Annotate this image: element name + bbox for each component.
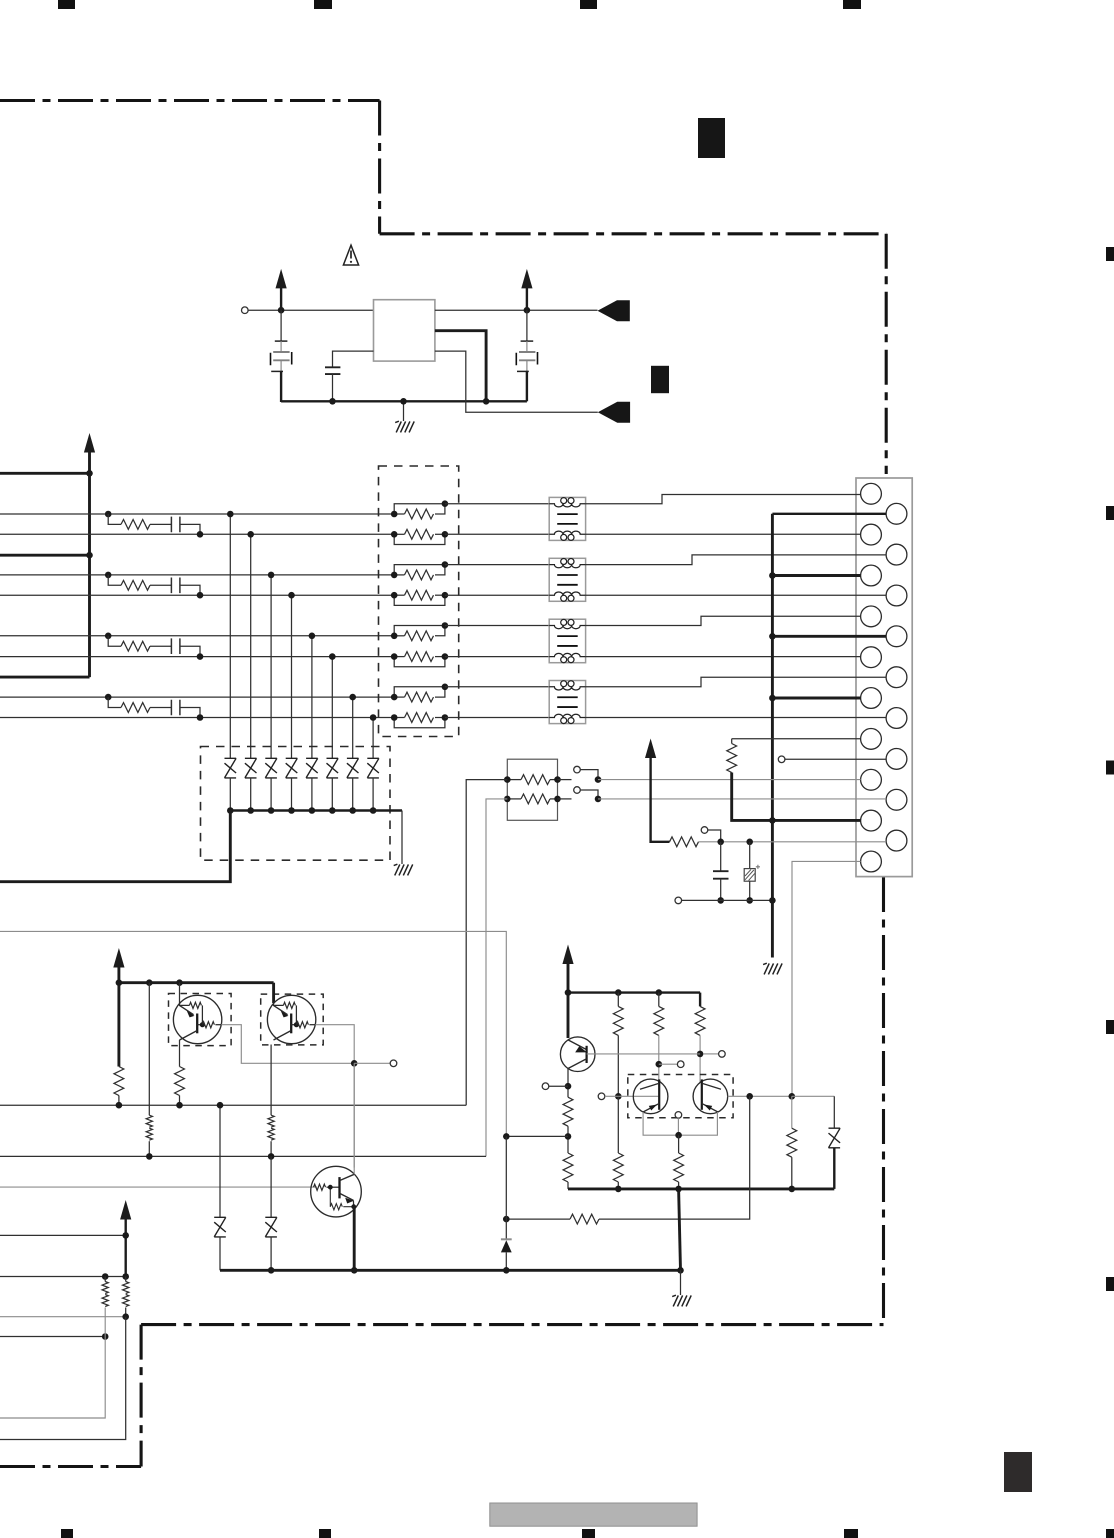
node D10 rail	[268, 1267, 275, 1274]
wire RA2 left to lower section	[486, 799, 507, 1157]
wire A5 stem	[124, 1219, 126, 1277]
wire D9 to bottom rail	[219, 1237, 221, 1270]
wire long line y=931.4	[0, 931, 506, 1136]
capacitor C2	[325, 367, 340, 374]
node bottom rail G4	[677, 1267, 684, 1274]
resistor network R7	[394, 687, 445, 697]
node Q5 base	[615, 1093, 622, 1100]
resistor R27	[123, 1282, 129, 1294]
wire R7 output to transformer	[445, 686, 549, 688]
node R1 right	[442, 500, 449, 507]
connector pin R6	[886, 708, 907, 729]
transformer T1	[549, 497, 585, 540]
node C5 top	[746, 839, 753, 846]
connector pin R4	[886, 626, 907, 647]
resistor Rb2	[658, 993, 660, 1007]
wire R23 to line 1156.4	[148, 1141, 150, 1156]
wire R25 to line 1156.4	[270, 1141, 272, 1156]
node R7 left	[391, 694, 398, 701]
diode D12	[501, 1238, 512, 1240]
wire Q6 emitter	[679, 1112, 718, 1135]
wire input node to diode D11	[792, 1095, 835, 1097]
resistor RA1	[507, 779, 521, 781]
diode D10	[270, 1156, 272, 1217]
wire T3 top to pin L4	[586, 616, 861, 625]
shield bus vertical (bold)	[771, 514, 774, 958]
connector pin R5	[886, 667, 907, 688]
node diode D1 rail	[227, 807, 234, 814]
dash-dot border right vertical lower segment	[882, 877, 885, 1322]
thick bus line 1 from left edge	[0, 472, 90, 475]
power arrow A1	[276, 269, 287, 289]
bottom ground rail (bold)	[220, 1269, 681, 1272]
power arrow A3	[84, 433, 95, 453]
node Q3 emitter rail	[351, 1267, 358, 1274]
wire Rd to node 1136.4	[567, 1126, 569, 1153]
wire pin R1 to shield bus	[772, 513, 886, 515]
wire D10 to bottom rail	[270, 1237, 272, 1270]
wire C2 to ground rail	[332, 374, 334, 401]
terminal T-E56	[675, 1112, 682, 1119]
wire tap to terminal	[659, 1063, 678, 1065]
resistor RC snubber 3	[108, 636, 121, 646]
dashed box diode bank	[201, 747, 391, 861]
signal wire line 6 from left edge	[0, 656, 394, 658]
node rail Rb2	[656, 989, 663, 996]
node R20/C4	[717, 839, 724, 846]
resistor R25	[268, 1115, 274, 1127]
wire R2 output to transformer	[445, 533, 549, 535]
crop mark bottom 3	[582, 1529, 595, 1538]
connector pin L5	[861, 647, 882, 668]
power arrow A6	[562, 945, 573, 965]
signal wire line 1 from left edge	[0, 513, 394, 515]
node RC snubber 3 lower tap	[197, 653, 204, 660]
wire T1 bottom to pin L2	[586, 533, 861, 535]
node Rf rail	[675, 1186, 682, 1193]
node D12 rail	[503, 1267, 510, 1274]
node RC snubber 4 upper tap	[105, 694, 112, 701]
node R2 right	[442, 531, 449, 538]
connector pin L6	[861, 688, 882, 709]
transistor Q1 (digital, PNP)	[173, 995, 221, 1043]
wire vertical drop 2 to diode bank	[250, 534, 252, 758]
wire diode D1 to rail	[229, 778, 231, 811]
wire Q5 emitter	[643, 1112, 679, 1135]
resistor network R5	[394, 626, 445, 636]
wire vertical drop 7 to diode bank	[352, 697, 354, 758]
resistor R23	[148, 983, 150, 1115]
resistor network R2	[394, 534, 445, 544]
node drop 7 on line 7	[349, 694, 356, 701]
wire left line y=1276.5	[0, 1276, 126, 1278]
wire to terminal T-QB	[354, 1062, 390, 1064]
node drop 6 on line 6	[329, 653, 336, 660]
node S1 output	[595, 776, 602, 783]
capacitor C5 (electrolytic boxed)	[749, 842, 751, 869]
terminal T-QB	[390, 1060, 397, 1067]
dash-dot border upper horizontal y=233.8	[380, 232, 887, 235]
wire T3 bottom to pin L5	[586, 656, 861, 658]
registration square right edge 1	[1106, 247, 1114, 261]
wire R24 to line 1105.2	[179, 1096, 181, 1106]
wire to ground G4	[680, 1270, 682, 1295]
thin line left y=1156.4	[0, 1155, 486, 1157]
connector pin R3	[886, 585, 907, 606]
node line1136 left	[503, 1133, 510, 1140]
wire Q2 collector down	[270, 1045, 272, 1116]
power arrow A4	[113, 948, 124, 968]
wire diode D3 to rail	[270, 778, 272, 811]
connector pin R7	[886, 749, 907, 770]
transformer T2	[549, 558, 585, 601]
crop mark top 1	[58, 0, 75, 9]
node R24 line1105	[176, 1102, 183, 1109]
registration square right edge 5	[1106, 1277, 1114, 1291]
wire A4 stem / emitter rail (bold)	[117, 967, 120, 1067]
warning triangle symbol	[343, 245, 358, 265]
resistor R24	[175, 1067, 185, 1096]
node bus L3	[769, 572, 776, 579]
registration square right edge 2	[1106, 506, 1114, 520]
wire R4 output to transformer	[445, 594, 549, 596]
diode D1 (surge absorber)	[225, 758, 237, 778]
wire arrow A1 stem	[280, 288, 282, 311]
capacitor C4	[720, 842, 722, 871]
thick bus line 3 from left edge	[0, 676, 90, 679]
diode D2 (surge absorber)	[245, 758, 257, 778]
transistor Q3 (digital, mirrored)	[311, 1166, 362, 1217]
wire x=506.3 down (diode branch)	[505, 1136, 507, 1239]
wire Q4 collector down	[567, 1069, 569, 1098]
node R4 left	[391, 592, 398, 599]
dashed box around Q2	[261, 994, 324, 1045]
node R27 line1316	[122, 1313, 129, 1320]
voltage regulator U1	[374, 300, 435, 361]
node RC snubber 4 lower tap	[197, 714, 204, 721]
resistor Rf (emitter)	[678, 1135, 680, 1153]
connector pin L10	[861, 851, 882, 872]
node drop 1 on line 1	[227, 511, 234, 518]
node RC snubber 2 lower tap	[197, 592, 204, 599]
signal wire line 8 from left edge	[0, 717, 394, 719]
node Rb4 rail	[615, 1186, 622, 1193]
wire bus to pin L6 (bold)	[772, 697, 860, 700]
capacitor RC snubber 3	[171, 638, 180, 654]
node R5 right	[442, 622, 449, 629]
resistor Rb1	[617, 993, 619, 1007]
wire Q4 base	[587, 1053, 701, 1055]
node RC snubber 3 upper tap	[105, 633, 112, 640]
diode D8 (surge absorber)	[367, 758, 379, 778]
crop mark top 3	[580, 0, 597, 9]
node rail A4	[116, 979, 123, 986]
resistor R26	[102, 1282, 108, 1294]
resistor network R3	[394, 565, 445, 575]
crop mark bottom 2	[319, 1529, 331, 1538]
wire A6 stem (bold)	[567, 963, 570, 1038]
resistor R21 (to L7)	[731, 739, 733, 744]
wire vertical drop 6 to diode bank	[331, 657, 333, 759]
wire T1 top to pin L1	[586, 495, 861, 504]
node Rg rail	[789, 1186, 796, 1193]
node emitter join	[675, 1132, 682, 1139]
node drop 2 on line 2	[247, 531, 254, 538]
dash-dot border right vertical upper segment	[885, 234, 888, 474]
wire diode D4 to rail	[291, 778, 293, 811]
wire T2 bottom to pin R3	[586, 594, 887, 596]
node rail R23	[146, 979, 153, 986]
feedback resistor Rh	[506, 1218, 570, 1220]
thick bus line 2 from left edge	[0, 554, 90, 557]
diode D7 (surge absorber)	[347, 758, 359, 778]
node Rb2 tap	[656, 1061, 663, 1068]
capacitor RC snubber 4	[171, 700, 180, 716]
node RA1 left	[504, 776, 511, 783]
wire R21 bottom to pin L9 (bold)	[732, 773, 861, 821]
wire Q1 base out	[221, 1025, 354, 1064]
wire terminal to pin R7	[785, 758, 886, 760]
power arrow A7	[645, 739, 656, 759]
dash-dot border top left horizontal	[0, 99, 380, 102]
switch S2 contact	[558, 798, 572, 800]
connector tab 1 (faston)	[598, 300, 630, 321]
thin line left y=1105.2	[0, 1104, 466, 1106]
wire T2 top to pin R2	[586, 555, 887, 565]
thick vertical bus x=89.5	[88, 453, 91, 678]
wire T4 bottom to pin R6	[586, 717, 887, 719]
diode D9	[219, 1105, 221, 1217]
node Rd/line	[565, 1133, 572, 1140]
resistor RA2	[507, 798, 521, 800]
transformer T3	[549, 619, 585, 663]
wire R8 output to transformer	[445, 717, 549, 719]
wire arrow A2 stem	[526, 288, 528, 311]
wire Rb2 to Q5 collector	[658, 1035, 660, 1083]
node bus L9	[769, 817, 776, 824]
resistor R20 (series)	[670, 837, 699, 847]
signal wire line 7 from left edge	[0, 696, 394, 698]
ground G4	[672, 1295, 691, 1306]
node R25 line1156	[268, 1153, 275, 1160]
resistor network R8	[394, 718, 445, 728]
terminal T-B5 (Q5 base)	[598, 1093, 605, 1100]
wire Q3 collector up to base join	[353, 1063, 355, 1174]
node RC snubber 1 lower tap	[197, 531, 204, 538]
signal wire line 2 from left edge	[0, 533, 394, 535]
input terminal (regulator)	[242, 307, 249, 314]
wire R27 down to line 1439.5	[0, 1317, 126, 1440]
node RA2 right	[554, 796, 561, 803]
node R6 right	[442, 653, 449, 660]
diode bank common rail	[230, 809, 402, 811]
wire R5 output to transformer	[445, 625, 549, 627]
resistor RC snubber 2	[108, 575, 121, 585]
node rail Q1 emitter	[176, 979, 183, 986]
wire bus to pin L3 (bold)	[772, 574, 860, 577]
switch S1 contact	[558, 779, 572, 781]
node diode D8 rail	[370, 807, 377, 814]
capacitor RC snubber 1	[171, 517, 180, 533]
connector pin L7	[861, 729, 882, 750]
wire D12 to bottom rail	[505, 1252, 507, 1270]
ground rail under regulator	[281, 400, 527, 402]
connector pin L2	[861, 524, 882, 545]
resistor network R6	[394, 657, 445, 667]
node rail A6	[565, 989, 572, 996]
wire diode D6 to rail	[331, 778, 333, 811]
wire vertical drop 1 to diode bank	[229, 514, 231, 758]
wire R3 output to transformer	[445, 564, 549, 566]
node rail Rb1	[615, 989, 622, 996]
connector pin R2	[886, 544, 907, 565]
ground G3 (bus bottom)	[763, 963, 782, 974]
dashed box around Q5 Q6	[628, 1075, 733, 1118]
node R23 line1156	[146, 1153, 153, 1160]
crop mark top 4	[843, 0, 861, 9]
diode D11	[833, 1096, 835, 1128]
node Q4 base / Rb3	[697, 1051, 704, 1058]
resistor Rb3	[699, 993, 701, 1007]
power arrow A2	[521, 269, 532, 289]
node R27 top	[122, 1273, 129, 1280]
node R26 line1336	[102, 1333, 109, 1340]
node bus L6	[769, 695, 776, 702]
node R26 top	[102, 1273, 109, 1280]
node S2 output	[595, 796, 602, 803]
node R4 right	[442, 592, 449, 599]
terminal T-C5	[677, 1061, 684, 1068]
crop mark bottom 1	[61, 1529, 73, 1538]
wire input to regulator U1	[248, 309, 373, 311]
wire diode D2 to rail	[250, 778, 252, 811]
node A5 line1235	[122, 1232, 129, 1239]
wire U1 pin (left bottom) to C2	[333, 351, 374, 367]
node drop 8 on line 8	[370, 714, 377, 721]
wire bus to pin R4 (bold)	[772, 635, 886, 638]
wire vertical drop 8 to diode bank	[372, 718, 374, 759]
wire Rb3 to Q6 collector / Q4 base node	[699, 1035, 701, 1083]
capacitor C1 (electrolytic)	[280, 310, 282, 341]
wire C1 to ground rail	[280, 371, 282, 402]
node R22 line1105	[116, 1102, 123, 1109]
wire Q1 collector to R24	[179, 1040, 181, 1067]
resistor RC snubber 4	[108, 697, 121, 707]
diode D4 (surge absorber)	[286, 758, 298, 778]
node RC snubber 2 upper tap	[105, 572, 112, 579]
node R8 right	[442, 714, 449, 721]
node drop 5 on line 5	[309, 633, 316, 640]
transistor Q4 (PNP)	[560, 1037, 595, 1072]
node RC snubber 1 upper tap	[105, 511, 112, 518]
node diode D2 rail	[247, 807, 254, 814]
node input / C1 junction	[278, 307, 285, 314]
connector pin R1	[886, 503, 907, 524]
resistor R22 (below arrow)	[114, 1067, 124, 1096]
wire S1 to pin L8	[598, 779, 861, 781]
node output / C3 junction	[524, 307, 531, 314]
connector CN1 body	[856, 478, 912, 877]
transistor Q6 (PNP pair right)	[693, 1079, 728, 1114]
terminal T-C4	[542, 1083, 549, 1090]
wire U1 pin3 to ground rail (bold)	[435, 331, 486, 402]
diode D5 (surge absorber)	[306, 758, 318, 778]
node diode D3 rail	[268, 807, 275, 814]
black index box top (sheet marker)	[698, 118, 725, 158]
emitter rail to Q2 (bold)	[119, 981, 274, 984]
node C2 / rail	[329, 398, 336, 405]
wire pin L10 to lower amp node	[792, 861, 861, 1096]
wire terminal to bus at y=900.4	[682, 899, 773, 901]
registration square right edge 3	[1106, 761, 1114, 775]
wire diode D8 to rail	[372, 778, 374, 811]
terminal T-R20 tap	[701, 827, 708, 834]
registration square right edge 4	[1106, 1020, 1114, 1034]
supply rail y=992.6	[568, 991, 700, 993]
resistor Rg (input to rail)	[791, 1096, 793, 1128]
wire diode D5 to rail	[311, 778, 313, 811]
node bus R4	[769, 633, 776, 640]
terminal T-B4	[719, 1051, 726, 1058]
wire R20 to pin R9	[699, 841, 887, 843]
signal wire line 3 from left edge	[0, 574, 394, 576]
node R3 right	[442, 561, 449, 568]
node drop 3 on line 3	[268, 572, 275, 579]
node bus line2	[86, 552, 93, 559]
ground G1	[403, 401, 405, 421]
wire Q1 emitter	[179, 983, 181, 1003]
resistor RC snubber 1	[108, 514, 121, 524]
wire arrow A7 stem down	[651, 757, 670, 842]
node bus line1	[86, 470, 93, 477]
wire Q2 base out	[315, 1025, 354, 1168]
gray line left y=1187.1 (Q3 base)	[0, 1186, 317, 1188]
wire Q5 base node into circle	[618, 1095, 659, 1097]
wire R26 down to line 1418	[0, 1308, 105, 1419]
node C5 bottom	[746, 897, 753, 904]
node drop 4 on line 4	[288, 592, 295, 599]
wire gray line y=1316.7	[0, 1316, 126, 1318]
transistor Q2 (digital, PNP)	[267, 995, 315, 1043]
node diode D7 rail	[349, 807, 356, 814]
wire S2 to pin R8	[598, 798, 886, 800]
node G1 rail	[400, 398, 407, 405]
node C4 bottom	[717, 897, 724, 904]
wire terminal tap to R20 node	[708, 830, 721, 842]
dash-dot border bottom left horizontal y=1466.5	[0, 1465, 141, 1468]
ground G2	[394, 864, 413, 875]
resistor network R1	[394, 504, 445, 514]
connector pin L9	[861, 810, 882, 831]
registration square bottom right corner	[1106, 1529, 1114, 1538]
diode D3 (surge absorber)	[265, 758, 277, 778]
node R2 left	[391, 531, 398, 538]
transistor Q5 (PNP pair left)	[633, 1079, 668, 1114]
resistor Rd	[563, 1097, 573, 1126]
terminal T-900	[675, 897, 682, 904]
node R7 right	[442, 684, 449, 691]
resistor Rb4 (Q5 base to rail)	[617, 1096, 619, 1153]
capacitor RC snubber 2	[171, 578, 180, 594]
node pin3 / rail	[483, 398, 490, 405]
node input L10 join	[789, 1093, 796, 1100]
wire T4 top to pin R5	[586, 677, 887, 687]
wire Rb1 to Q5 base node	[617, 1035, 619, 1096]
connector pin R8	[886, 789, 907, 810]
power arrow A5	[120, 1200, 131, 1220]
connector pin R9	[886, 830, 907, 851]
node R8 left	[391, 714, 398, 721]
